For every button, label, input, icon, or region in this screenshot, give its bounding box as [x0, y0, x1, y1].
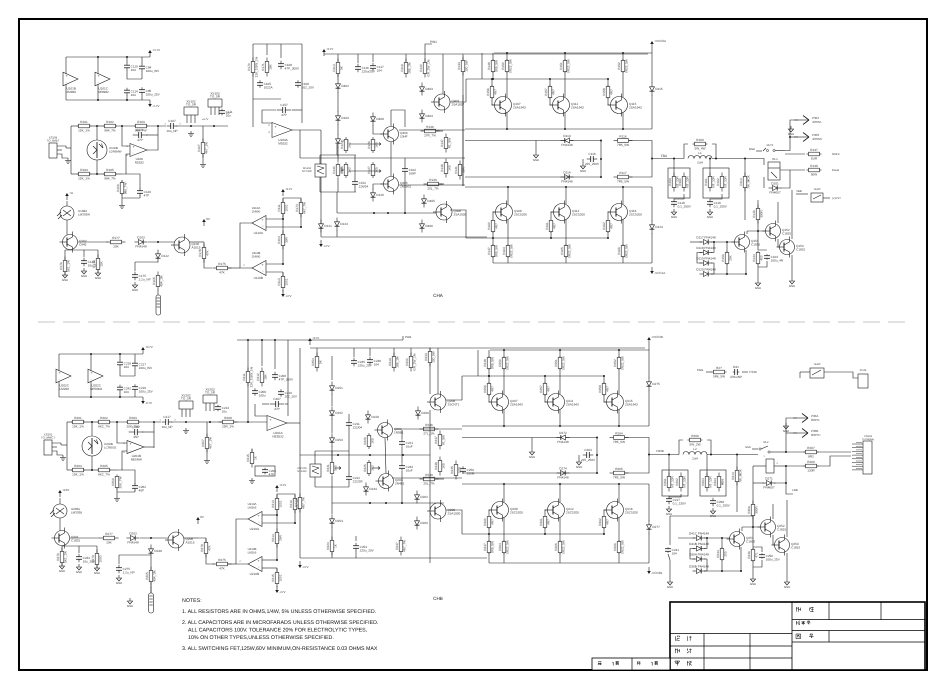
wire	[544, 528, 546, 534]
wire	[481, 53, 483, 79]
diode D274	[557, 466, 570, 479]
svg-text:R105: R105	[106, 168, 114, 172]
wire	[618, 350, 620, 357]
svg-text:27R_7%: 27R_7%	[424, 134, 436, 138]
wire	[316, 348, 318, 356]
pin	[123, 442, 125, 445]
resistor R144	[752, 251, 764, 265]
wire supply box B top	[59, 353, 143, 355]
diode D253	[330, 434, 344, 447]
wire base bus top B	[462, 375, 604, 377]
thermistor element	[317, 166, 324, 174]
svg-text:R140: R140	[332, 166, 336, 174]
svg-text:R204: R204	[74, 464, 82, 468]
transistor Q208	[427, 391, 460, 413]
svg-text:50W: 50W	[811, 173, 817, 177]
svg-text:R273: R273	[294, 499, 298, 507]
wire	[545, 510, 549, 515]
power +17V	[275, 483, 286, 492]
svg-text:R250: R250	[498, 359, 502, 367]
capacitor C114	[124, 88, 138, 97]
pin	[123, 451, 125, 454]
svg-text:6: 6	[123, 451, 125, 454]
resistor R246	[747, 548, 759, 562]
svg-text:2: 2	[174, 419, 176, 422]
svg-text:4K7_1%: 4K7_1%	[205, 142, 209, 154]
svg-text:R160: R160	[696, 138, 704, 142]
svg-text:0R22_5W: 0R22_5W	[567, 59, 571, 73]
wire input pin3	[57, 154, 68, 158]
svg-text:1001: 1001	[279, 574, 283, 581]
resistor R260	[688, 434, 703, 447]
capacitor C105	[257, 80, 273, 89]
wire collector	[503, 484, 505, 502]
svg-text:2K2: 2K2	[348, 167, 352, 173]
wire	[824, 372, 858, 378]
transistor Q153	[777, 237, 806, 258]
wire	[600, 141, 602, 178]
svg-text:D248: D248	[154, 549, 162, 553]
junction	[596, 454, 598, 456]
svg-text:RL2: RL2	[764, 441, 769, 444]
junction	[157, 125, 159, 127]
svg-text:R164: R164	[502, 247, 506, 255]
wire collector	[559, 484, 561, 502]
resistor R205	[97, 464, 111, 477]
wire	[753, 465, 766, 467]
wire	[462, 472, 597, 474]
svg-text:R124: R124	[340, 141, 344, 149]
svg-text:R159: R159	[668, 178, 672, 186]
junction	[402, 454, 404, 456]
svg-text:R262: R262	[675, 478, 679, 486]
wire	[202, 154, 204, 162]
wire	[331, 527, 333, 540]
capacitor C157	[277, 103, 292, 117]
wire ntc bottom	[320, 191, 356, 193]
svg-text:C1815: C1815	[71, 539, 80, 543]
power -VCC3B	[647, 567, 662, 575]
wire	[206, 422, 208, 437]
resistor R156	[721, 251, 733, 265]
svg-text:2: 2	[268, 124, 270, 127]
wire PWB line	[237, 339, 403, 341]
junction	[544, 375, 546, 377]
wire	[331, 552, 333, 558]
wire VCC rail A	[494, 52, 652, 54]
wire	[276, 515, 278, 532]
svg-text:7R5_5W: 7R5_5W	[613, 476, 625, 480]
junction	[600, 158, 602, 160]
svg-text:R103: R103	[137, 120, 145, 124]
title block text	[598, 607, 814, 666]
wire emitter	[622, 72, 624, 97]
wire	[234, 421, 267, 423]
resistor R105	[103, 168, 117, 181]
wire	[126, 57, 128, 63]
svg-text:R107: R107	[197, 144, 201, 152]
ground pkg	[188, 131, 194, 137]
wire	[492, 98, 496, 105]
diode D118 PN4148	[696, 246, 715, 255]
junction	[503, 483, 505, 485]
wire	[122, 197, 140, 199]
svg-text:3. ALL SWITCHING FET,125W,60V: 3. ALL SWITCHING FET,125W,60V MINIMUM,ON…	[182, 646, 378, 652]
svg-text:GND: GND	[580, 169, 586, 173]
wire	[629, 141, 652, 178]
svg-text:2K2: 2K2	[348, 142, 352, 148]
svg-text:52R: 52R	[458, 466, 462, 472]
node FB/a	[697, 368, 704, 372]
wire FBB out	[649, 454, 679, 456]
svg-text:NE8982: NE8982	[98, 90, 109, 94]
svg-text:27L_1%: 27L_1%	[423, 432, 435, 436]
svg-text:GND: GND	[116, 581, 122, 585]
svg-text:R214: R214	[271, 534, 275, 542]
connector XP20	[858, 374, 868, 388]
wire	[790, 120, 798, 140]
diode D113	[561, 134, 574, 147]
svg-text:0R22_5W: 0R22_5W	[621, 540, 625, 554]
capacitor C217	[161, 415, 172, 429]
wire bias bottom line B	[332, 502, 444, 504]
svg-text:1: 1	[164, 123, 166, 126]
power +17V	[281, 187, 292, 196]
wire	[706, 371, 712, 373]
svg-text:+: +	[257, 559, 259, 563]
wire	[673, 159, 675, 177]
wire	[786, 418, 797, 452]
svg-text:R158: R158	[602, 88, 606, 96]
node PWB	[405, 335, 412, 339]
wire	[651, 233, 653, 263]
svg-text:TO_5R: TO_5R	[186, 103, 197, 107]
power +17V	[322, 47, 333, 56]
wire	[721, 538, 723, 548]
wire fb low	[253, 98, 281, 100]
resistor R261	[663, 473, 675, 492]
resistor R158	[602, 85, 614, 99]
wire input bracket B	[66, 422, 68, 470]
wire	[385, 438, 386, 473]
resistor R264	[713, 473, 725, 492]
inductor L1	[688, 151, 712, 165]
svg-text:D253: D253	[335, 438, 343, 442]
svg-text:TO_5R: TO_5R	[181, 397, 192, 401]
optocoupler U202B	[82, 422, 117, 470]
wire	[292, 109, 302, 111]
svg-text:6: 6	[126, 154, 128, 157]
wire	[492, 72, 494, 79]
wire	[202, 126, 204, 142]
wire	[331, 451, 333, 460]
node P34B	[749, 370, 756, 374]
svg-text:LCR6502: LCR6502	[104, 445, 117, 449]
svg-text:+: +	[261, 263, 263, 267]
junction	[506, 128, 508, 130]
capacitor C212	[346, 474, 363, 484]
svg-text:R111: R111	[277, 204, 281, 211]
wire	[401, 447, 403, 463]
junction	[745, 273, 747, 275]
svg-text:L2: L2	[693, 447, 697, 451]
svg-text:4R7: 4R7	[494, 89, 498, 95]
label	[813, 188, 820, 191]
svg-text:R156: R156	[721, 254, 725, 262]
diode D120 PN4148	[696, 267, 716, 276]
wire opamp outs B	[236, 519, 248, 564]
resistor R251	[554, 356, 566, 370]
svg-text:+C7V: +C7V	[145, 345, 153, 349]
wire	[84, 421, 98, 423]
power +4.7V	[148, 48, 160, 57]
label	[860, 369, 867, 372]
svg-text:104: 104	[377, 69, 382, 73]
svg-text:4OHM-: 4OHM-	[812, 120, 822, 124]
junction	[369, 454, 371, 456]
page number strip	[592, 658, 670, 670]
svg-text:NT_10R: NT_10R	[671, 475, 675, 487]
op-amp U202C	[88, 369, 103, 391]
resistor R177	[107, 236, 126, 249]
svg-text:2SC5200: 2SC5200	[510, 511, 523, 515]
power -17V	[275, 586, 285, 594]
svg-text:2: 2	[243, 264, 245, 267]
wire	[465, 176, 601, 178]
capacitor C217	[666, 496, 687, 506]
package XS203	[203, 388, 217, 412]
transistor Q212	[545, 499, 580, 522]
resistor R237	[434, 431, 446, 450]
svg-text:D120 PN4148: D120 PN4148	[696, 267, 716, 271]
svg-text:R213: R213	[271, 500, 275, 508]
svg-text:5R6_5W: 5R6_5W	[713, 375, 725, 379]
svg-text:D119 PN4148: D119 PN4148	[696, 256, 715, 260]
wire	[753, 560, 762, 567]
svg-text:R257: R257	[539, 385, 543, 393]
wire collector	[565, 187, 567, 204]
wire	[668, 554, 670, 560]
svg-text:R133: R133	[457, 62, 461, 70]
diode D101	[769, 181, 782, 194]
svg-text:A1015: A1015	[186, 541, 195, 545]
wire	[348, 414, 350, 420]
svg-text:2SC5200: 2SC5200	[625, 511, 638, 515]
junction	[565, 186, 567, 188]
wire	[796, 193, 808, 195]
svg-text:986_7%*: 986_7%*	[124, 181, 128, 194]
wire	[492, 257, 494, 263]
svg-text:185_1%: 185_1%	[408, 62, 412, 74]
svg-text:R248: R248	[483, 359, 487, 367]
svg-text:100_5W: 100_5W	[432, 351, 436, 363]
wire	[712, 144, 716, 159]
svg-text:47K: 47K	[206, 249, 210, 255]
resistor R160	[678, 173, 690, 192]
resistor R126	[367, 137, 379, 153]
svg-text:2SA1943: 2SA1943	[513, 106, 526, 110]
svg-text:2SC5200: 2SC5200	[514, 213, 527, 217]
svg-text:R136: R136	[426, 125, 434, 129]
wire	[462, 54, 464, 60]
wire	[772, 504, 774, 519]
svg-text:R126: R126	[367, 141, 371, 149]
wire	[147, 144, 158, 150]
svg-text:R101: R101	[80, 120, 88, 124]
junction	[744, 158, 746, 160]
ground	[666, 506, 672, 516]
title block grid	[670, 602, 925, 670]
svg-text:47P: 47P	[281, 113, 287, 117]
svg-text:M5532: M5532	[278, 142, 288, 146]
svg-text:D402: D402	[341, 84, 349, 88]
wire	[337, 147, 339, 157]
wire	[287, 422, 300, 424]
junction	[157, 241, 159, 243]
svg-text:GND: GND	[576, 465, 582, 469]
wire	[134, 490, 136, 492]
svg-text:C157: C157	[280, 103, 288, 107]
wire PW1 stub	[425, 44, 432, 54]
svg-text:R260: R260	[691, 434, 699, 438]
svg-text:R208: R208	[224, 416, 232, 420]
svg-text:1K5: 1K5	[375, 142, 379, 148]
wire	[489, 395, 493, 402]
resistor R139	[424, 178, 443, 191]
wire	[319, 177, 321, 192]
svg-text:U210A: U210A	[250, 527, 260, 531]
svg-text:15K_1%: 15K_1%	[78, 129, 90, 133]
resistor R105	[152, 272, 164, 291]
svg-text:1K: 1K	[334, 543, 338, 548]
wire	[134, 262, 136, 271]
svg-text:1: 1	[763, 455, 765, 458]
wire	[61, 546, 63, 551]
wire mid tie B	[120, 367, 135, 376]
wire	[150, 557, 152, 570]
resistor R244	[716, 547, 728, 561]
junction	[648, 454, 650, 456]
wire	[337, 124, 339, 135]
svg-text:47P_300V: 47P_300V	[285, 67, 300, 71]
ground	[529, 449, 535, 459]
wire	[65, 249, 98, 251]
pin	[243, 264, 245, 267]
wire collector	[622, 113, 624, 129]
svg-text:D41C PN4148: D41C PN4148	[689, 531, 709, 535]
junction	[126, 99, 128, 101]
wire	[116, 173, 122, 175]
wire	[545, 395, 549, 402]
junction	[785, 482, 787, 484]
wire	[506, 53, 508, 60]
resistor R247	[395, 537, 407, 556]
wire	[778, 239, 780, 247]
ground	[95, 270, 101, 280]
wire	[488, 369, 490, 376]
svg-text:R239: R239	[425, 473, 433, 477]
wire	[262, 110, 276, 123]
wire	[83, 250, 85, 257]
wire	[726, 264, 728, 274]
wire	[336, 192, 338, 213]
wire	[276, 510, 278, 515]
wire	[786, 500, 788, 537]
diode D402	[336, 80, 350, 93]
svg-text:R245: R245	[450, 466, 454, 474]
wire	[126, 95, 128, 100]
svg-text:2SCNT1: 2SCNT1	[448, 403, 460, 407]
pin 2	[268, 124, 270, 127]
svg-text:R138: R138	[440, 164, 444, 172]
capacitor C243	[399, 463, 413, 472]
wire	[648, 350, 650, 378]
svg-text:(+)CSY: (+)CSY	[832, 197, 841, 200]
wire	[503, 350, 505, 357]
wire	[148, 241, 175, 243]
transistor Q215	[604, 391, 639, 414]
wire	[684, 144, 688, 159]
svg-text:R105: R105	[152, 277, 156, 285]
wire	[59, 498, 61, 504]
wire emitter	[506, 72, 508, 97]
svg-text:LM393W: LM393W	[78, 213, 90, 217]
wire	[446, 510, 462, 534]
junction	[97, 99, 99, 101]
svg-text:R207: R207	[201, 439, 205, 447]
wire collector	[507, 187, 509, 204]
capacitor C116	[585, 152, 600, 166]
svg-text:R275: R275	[218, 558, 226, 562]
svg-text:GND: GND	[132, 288, 138, 292]
resistor R279	[91, 550, 103, 569]
svg-text:2SA1943: 2SA1943	[625, 403, 638, 407]
wire	[757, 220, 759, 231]
wire	[544, 376, 546, 383]
svg-text:D115: D115	[655, 87, 662, 91]
capacitor C116	[355, 64, 376, 74]
ground prot2	[789, 278, 795, 288]
wire	[337, 155, 339, 162]
wire	[294, 510, 296, 523]
svg-text:GND: GND	[533, 158, 539, 162]
wire	[141, 71, 143, 79]
svg-text:5: 5	[126, 145, 128, 148]
wire	[122, 154, 130, 174]
op-amp U201A	[267, 416, 287, 439]
svg-text:A1_5W: A1_5W	[442, 435, 446, 445]
svg-text:R165: R165	[560, 247, 564, 255]
wire	[604, 395, 608, 402]
wire	[559, 553, 561, 563]
wire	[488, 350, 490, 357]
relay RL1	[768, 157, 780, 180]
junction	[387, 212, 389, 214]
capacitor C298	[710, 498, 731, 508]
svg-text:20K: 20K	[106, 541, 112, 545]
junction	[121, 125, 123, 127]
wire	[690, 549, 695, 560]
resistor R203	[126, 416, 140, 429]
svg-text:56R: 56R	[462, 166, 466, 172]
power -17V	[298, 561, 308, 569]
junction	[559, 483, 561, 485]
svg-text:C107: C107	[168, 119, 176, 123]
svg-text:104: 104	[672, 552, 677, 556]
svg-text:FBB: FBB	[792, 488, 798, 492]
wire	[535, 141, 537, 153]
wire	[618, 553, 620, 563]
